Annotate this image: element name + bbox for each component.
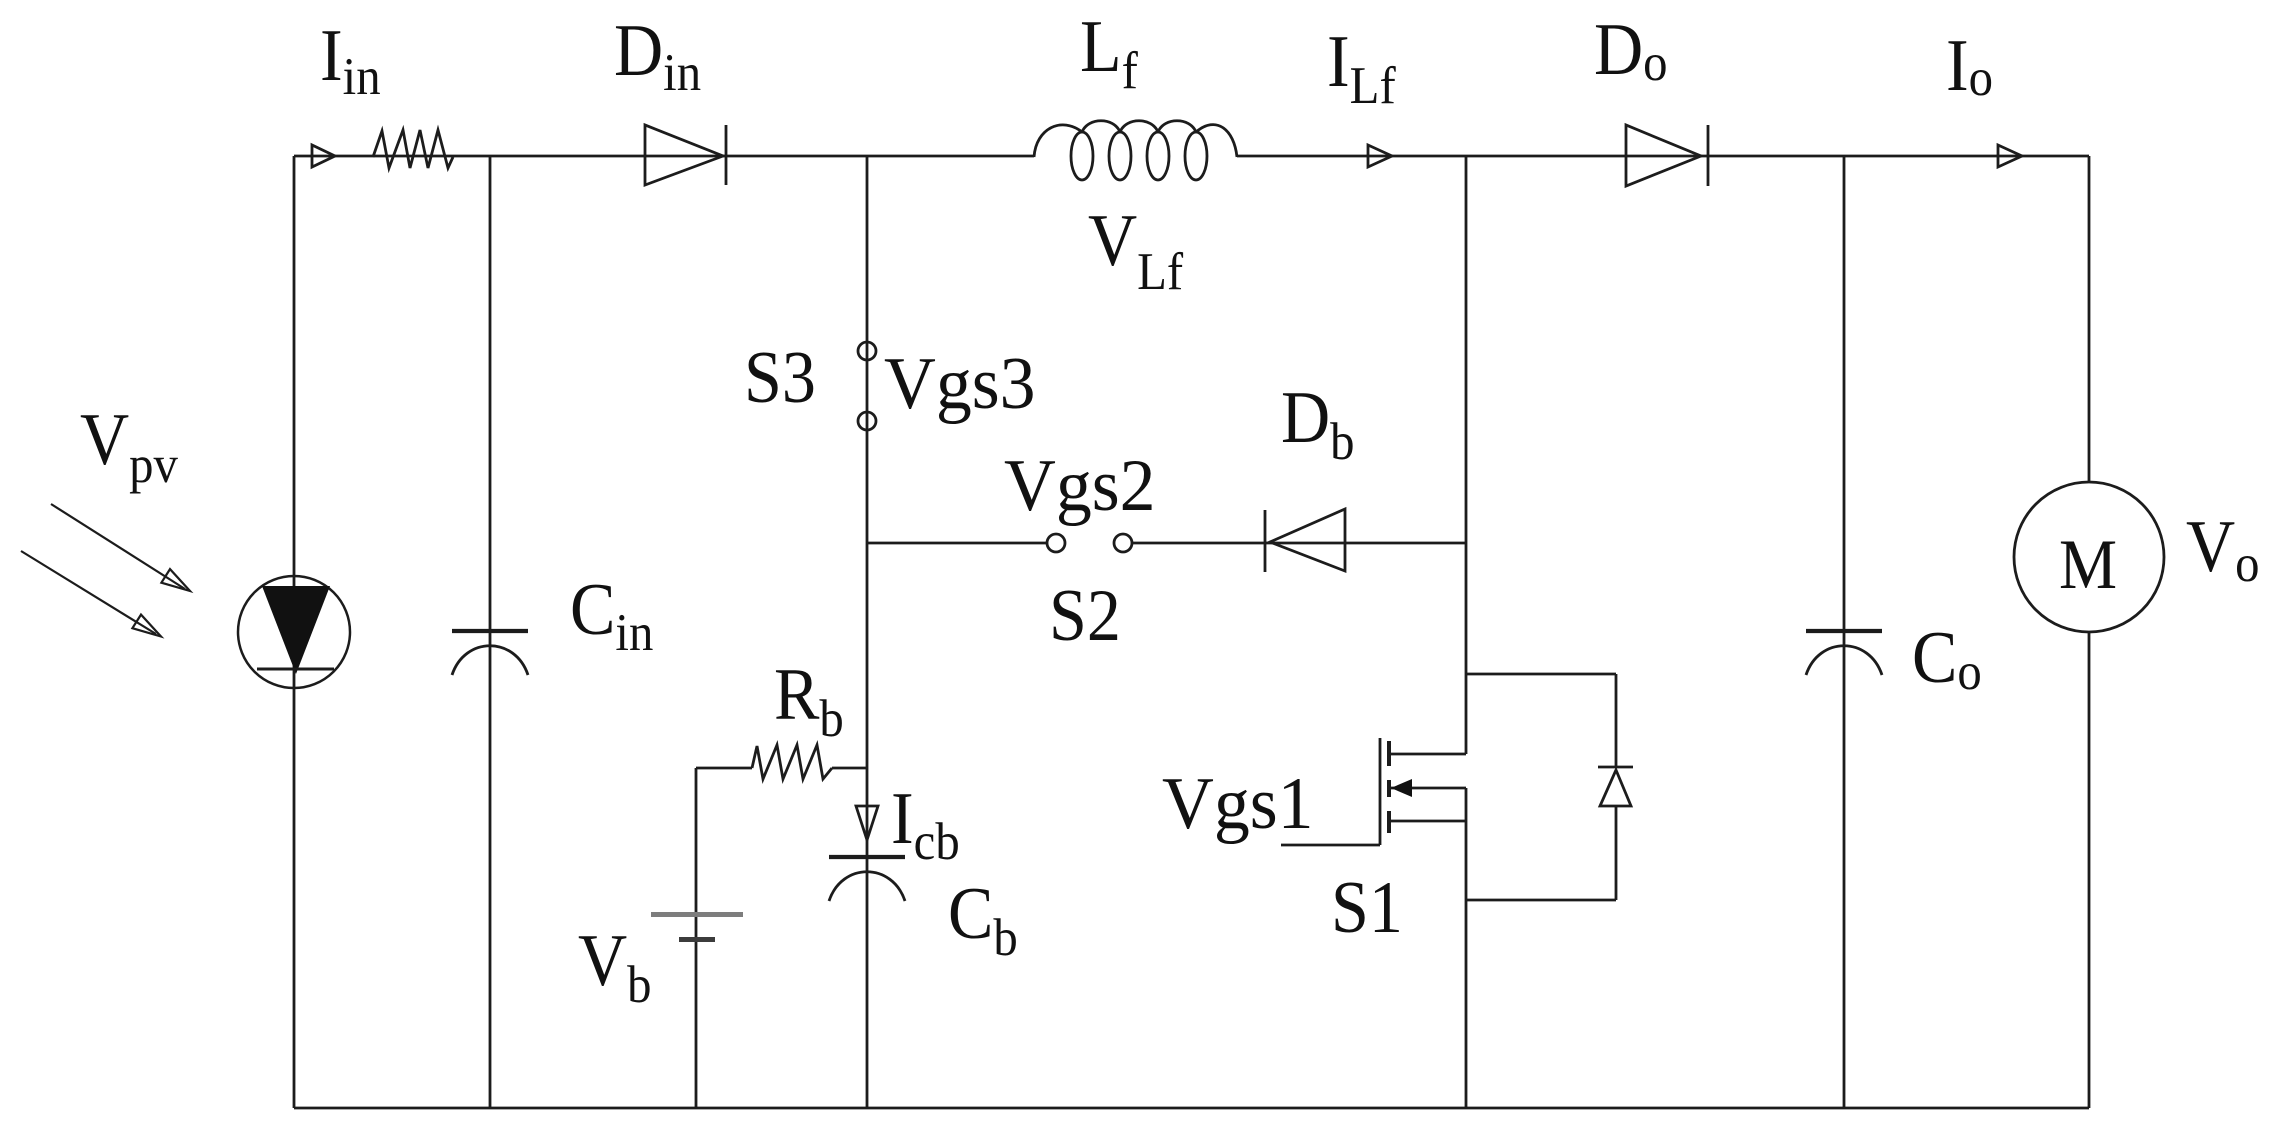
diode Din [645, 125, 726, 185]
wire S2 branch [867, 542, 1466, 545]
svg-text:M: M [2059, 525, 2117, 604]
switch S2 [1047, 534, 1065, 552]
svg-text:Vgs1: Vgs1 [1162, 762, 1314, 844]
resistor input parasitic [373, 130, 453, 168]
label Vo [2186, 506, 2260, 593]
label Icb [891, 778, 960, 871]
label S2 [1049, 575, 1121, 656]
wire bottom rail [294, 1107, 2089, 1110]
inductor Lf [1034, 125, 1082, 157]
capacitor Cin [452, 629, 528, 633]
transistor S1 channel segments [1387, 741, 1391, 833]
capacitor Co [1806, 629, 1882, 633]
label Co [1912, 617, 1982, 701]
label Cb [948, 873, 1018, 967]
wire Co branch [1843, 156, 1846, 1108]
svg-text:Vgs3: Vgs3 [884, 342, 1036, 424]
node I_o arrow [1998, 145, 2022, 167]
node I_in arrow [312, 145, 335, 167]
label Do [1594, 9, 1668, 92]
resistor Rb [752, 745, 832, 779]
svg-text:S1: S1 [1331, 867, 1403, 948]
label Db [1281, 377, 1355, 471]
battery Vb [651, 912, 743, 917]
wire S1 source down [1465, 788, 1468, 1108]
wire S1 drain branch [1465, 156, 1468, 754]
diode Do [1626, 125, 1708, 186]
switch S3 [858, 342, 876, 360]
diode S1 body [1598, 767, 1633, 806]
label Io [1946, 25, 1993, 107]
node I_cb arrow [856, 806, 878, 840]
source PV circle [238, 576, 350, 688]
transistor S1 gate plate [1379, 738, 1382, 845]
label Rb [774, 654, 844, 748]
wire Rb branch [696, 767, 867, 770]
motor M circle [2014, 482, 2164, 632]
label Iin [320, 15, 381, 106]
svg-text:Vgs2: Vgs2 [1004, 444, 1156, 526]
label Cin [570, 569, 653, 662]
label Vgs1 [1162, 762, 1314, 844]
label Vb [578, 920, 652, 1014]
label VLf [1088, 200, 1183, 301]
label Din [614, 10, 701, 102]
source PV bar [257, 668, 334, 671]
transistor S1 body arrow [1391, 779, 1412, 797]
wire Cin branch [489, 156, 492, 1108]
wire top rail [294, 155, 2089, 158]
wire S1 gate lead [1281, 844, 1380, 847]
wire Vb branch [695, 768, 698, 1108]
source PV triangle [262, 586, 330, 674]
transistor S1 source stub [1390, 820, 1466, 823]
label S1 [1331, 867, 1403, 948]
node I_Lf arrow [1368, 145, 1392, 167]
wire motor branch [2088, 156, 2091, 1108]
wire S3 branch [866, 156, 869, 1108]
label Vgs3 [884, 342, 1036, 424]
diode Db [1265, 509, 1345, 572]
transistor S1 body line [1391, 787, 1466, 790]
ray arrow 2 [21, 551, 161, 637]
label Vgs2 [1004, 444, 1156, 526]
capacitor Cb [829, 855, 905, 859]
label S3 [744, 337, 816, 418]
label ILf [1327, 21, 1396, 115]
svg-text:S3: S3 [744, 337, 816, 418]
ray arrow 1 [51, 504, 190, 591]
wire left rail [293, 156, 296, 1108]
label Lf [1080, 6, 1138, 100]
label M motor [2059, 525, 2117, 604]
svg-text:S2: S2 [1049, 575, 1121, 656]
label Vpv [80, 399, 178, 494]
wire S1 body-diode loop [1466, 674, 1616, 900]
transistor S1 drain stub [1390, 753, 1466, 756]
